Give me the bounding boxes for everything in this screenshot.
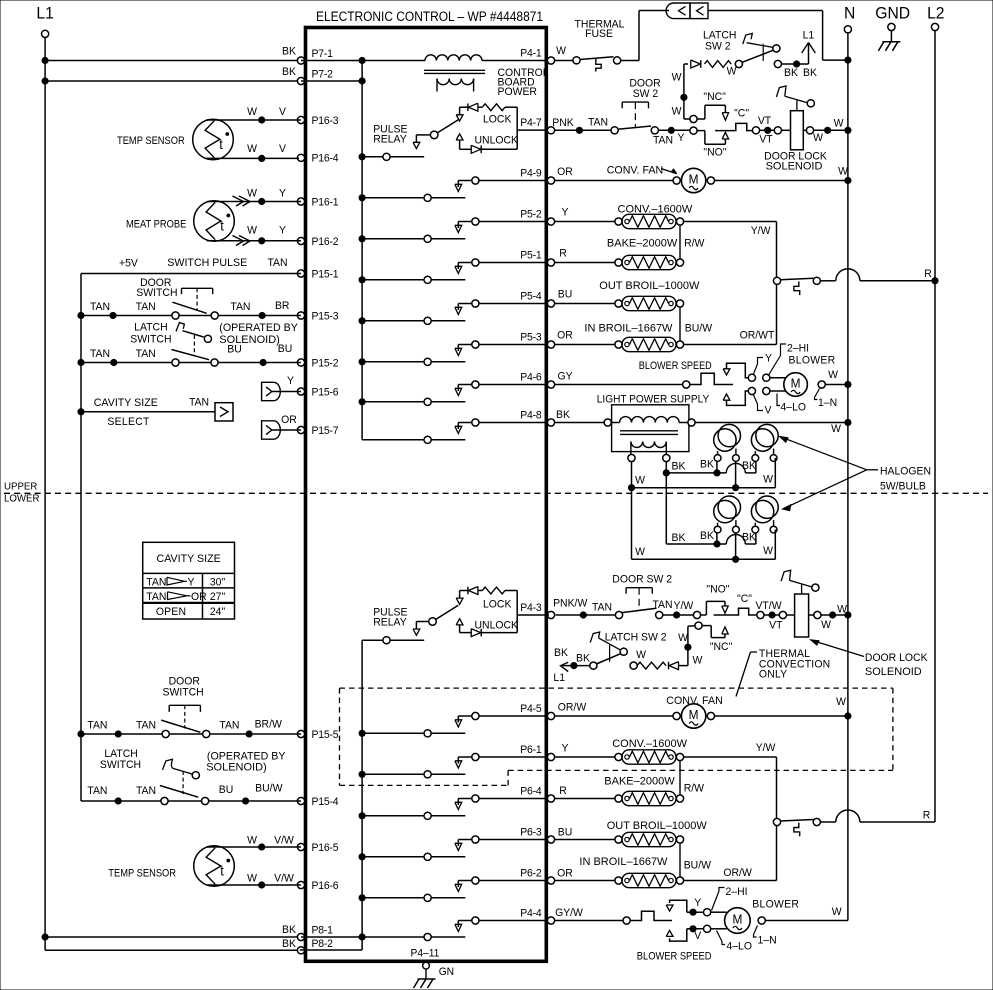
svg-text:P6-2: P6-2 <box>520 867 542 879</box>
svg-text:SOLENOID: SOLENOID <box>865 666 922 678</box>
svg-text:4–LO: 4–LO <box>726 940 752 952</box>
svg-text:BK: BK <box>282 45 297 57</box>
svg-text:Y: Y <box>765 352 772 364</box>
svg-text:P15-1: P15-1 <box>312 268 339 280</box>
svg-text:TAN: TAN <box>90 348 110 360</box>
svg-text:R: R <box>559 785 567 797</box>
svg-text:"NO": "NO" <box>706 583 729 595</box>
svg-text:SWITCH PULSE: SWITCH PULSE <box>167 257 247 269</box>
svg-text:5W/BULB: 5W/BULB <box>880 480 926 492</box>
svg-text:Y: Y <box>562 206 569 218</box>
svg-text:CAVITY SIZE: CAVITY SIZE <box>94 397 158 409</box>
svg-text:L1: L1 <box>553 672 565 684</box>
svg-text:LATCH: LATCH <box>134 321 167 333</box>
svg-text:PNK: PNK <box>552 117 574 129</box>
svg-text:W: W <box>831 423 842 435</box>
svg-text:P15-5: P15-5 <box>312 729 339 741</box>
svg-text:RELAY: RELAY <box>373 133 406 145</box>
svg-text:OUT BROIL–1000W: OUT BROIL–1000W <box>607 820 708 832</box>
svg-text:P4-4: P4-4 <box>520 907 542 919</box>
svg-text:+5V: +5V <box>119 257 139 269</box>
svg-text:BK: BK <box>742 531 757 543</box>
svg-text:(OPERATED BY: (OPERATED BY <box>207 750 286 762</box>
svg-text:V: V <box>279 106 287 118</box>
svg-text:P4-5: P4-5 <box>520 703 542 715</box>
svg-text:OUT BROIL–1000W: OUT BROIL–1000W <box>599 280 700 292</box>
svg-text:DOOR SW 2: DOOR SW 2 <box>612 573 672 585</box>
svg-text:2–HI: 2–HI <box>787 342 809 354</box>
svg-text:2–HI: 2–HI <box>726 886 748 898</box>
svg-text:V/W: V/W <box>274 834 295 846</box>
svg-text:W: W <box>247 106 258 118</box>
svg-text:P8-2: P8-2 <box>312 938 334 950</box>
svg-text:W: W <box>247 143 258 155</box>
svg-text:P15-7: P15-7 <box>312 425 339 437</box>
svg-text:L1: L1 <box>803 29 815 41</box>
svg-text:L2: L2 <box>927 4 944 22</box>
svg-text:TAN: TAN <box>592 601 612 613</box>
svg-text:P15-3: P15-3 <box>312 310 339 322</box>
svg-text:BU/W: BU/W <box>684 859 712 871</box>
svg-text:P16-4: P16-4 <box>312 152 339 164</box>
svg-text:BR: BR <box>275 300 290 312</box>
svg-text:V: V <box>279 143 287 155</box>
svg-text:OR: OR <box>557 166 573 178</box>
svg-text:P6-4: P6-4 <box>520 785 542 797</box>
svg-text:W: W <box>678 632 689 644</box>
svg-text:1–N: 1–N <box>818 397 837 409</box>
svg-text:PNK/W: PNK/W <box>553 597 588 609</box>
svg-text:BK: BK <box>556 409 571 421</box>
svg-text:TAN: TAN <box>652 599 672 611</box>
svg-text:Y: Y <box>279 224 286 236</box>
svg-text:P7-2: P7-2 <box>312 68 334 80</box>
svg-text:24": 24" <box>210 606 226 618</box>
svg-text:BK: BK <box>576 652 591 664</box>
svg-text:W: W <box>692 654 703 666</box>
svg-text:SWITCH: SWITCH <box>100 759 141 771</box>
svg-text:BU: BU <box>558 826 573 838</box>
svg-text:VT/W: VT/W <box>755 600 782 612</box>
svg-text:P4-7: P4-7 <box>520 117 542 129</box>
svg-text:BU: BU <box>219 784 234 796</box>
svg-text:DOOR LOCK: DOOR LOCK <box>865 652 928 664</box>
svg-text:CONV.–1600W: CONV.–1600W <box>612 738 687 750</box>
svg-text:BK: BK <box>700 530 715 542</box>
svg-text:SWITCH: SWITCH <box>163 686 204 698</box>
svg-text:BK: BK <box>742 460 757 472</box>
svg-text:CAVITY SIZE: CAVITY SIZE <box>157 553 221 565</box>
svg-text:W: W <box>821 619 832 631</box>
svg-text:BK: BK <box>803 67 818 79</box>
svg-text:P4-8: P4-8 <box>520 409 542 421</box>
svg-text:TAN: TAN <box>136 301 156 313</box>
svg-text:R: R <box>559 247 567 259</box>
svg-text:(OPERATED BY: (OPERATED BY <box>219 322 298 334</box>
svg-text:W: W <box>247 187 258 199</box>
svg-text:GY: GY <box>557 370 572 382</box>
svg-text:CONV. FAN: CONV. FAN <box>607 164 663 176</box>
svg-text:TAN: TAN <box>136 719 156 731</box>
svg-text:BU/W: BU/W <box>255 782 283 794</box>
svg-text:TAN: TAN <box>87 785 107 797</box>
svg-text:SELECT: SELECT <box>107 416 149 428</box>
svg-text:"C": "C" <box>734 107 749 119</box>
svg-text:27": 27" <box>210 591 226 603</box>
svg-text:ONLY: ONLY <box>759 668 787 680</box>
svg-text:W: W <box>636 649 647 661</box>
svg-text:P5-2: P5-2 <box>520 208 542 220</box>
svg-text:W: W <box>247 224 258 236</box>
svg-text:R/W: R/W <box>684 782 705 794</box>
svg-text:R: R <box>923 809 931 821</box>
svg-text:W: W <box>828 369 839 381</box>
svg-text:CONV.–1600W: CONV.–1600W <box>618 204 693 216</box>
svg-text:SW 2: SW 2 <box>633 88 659 100</box>
svg-text:OR/W: OR/W <box>723 867 752 879</box>
svg-text:LOCK: LOCK <box>483 113 512 125</box>
svg-text:TEMP SENSOR: TEMP SENSOR <box>108 868 176 880</box>
svg-text:P16-1: P16-1 <box>312 196 339 208</box>
svg-text:GN: GN <box>439 966 454 978</box>
svg-text:Y: Y <box>562 742 569 754</box>
svg-text:BAKE–2000W: BAKE–2000W <box>607 238 678 250</box>
svg-text:BU/W: BU/W <box>685 322 713 334</box>
svg-text:Y: Y <box>279 187 286 199</box>
svg-text:VT: VT <box>769 619 783 631</box>
svg-text:M: M <box>732 912 742 926</box>
svg-text:P7-1: P7-1 <box>312 48 334 60</box>
svg-text:GY/W: GY/W <box>555 907 584 919</box>
svg-text:BLOWER: BLOWER <box>789 354 836 366</box>
svg-text:W: W <box>247 834 258 846</box>
svg-text:V: V <box>765 404 773 416</box>
svg-text:P16-6: P16-6 <box>312 880 339 892</box>
svg-text:FUSE: FUSE <box>585 28 613 40</box>
svg-text:"NC": "NC" <box>710 641 733 653</box>
svg-text:SWITCH: SWITCH <box>136 287 177 299</box>
svg-text:GND: GND <box>875 4 910 22</box>
svg-text:1–N: 1–N <box>758 934 777 946</box>
svg-text:P8-1: P8-1 <box>312 924 334 936</box>
svg-text:BK: BK <box>554 647 569 659</box>
svg-text:BLOWER SPEED: BLOWER SPEED <box>639 360 712 372</box>
svg-text:LIGHT POWER SUPPLY: LIGHT POWER SUPPLY <box>597 393 709 405</box>
svg-text:BK: BK <box>672 532 687 544</box>
svg-text:P5-1: P5-1 <box>520 249 542 261</box>
svg-text:t: t <box>220 218 224 233</box>
svg-text:Y: Y <box>188 576 195 588</box>
svg-text:TAN: TAN <box>653 134 673 146</box>
svg-text:W: W <box>763 545 774 557</box>
svg-text:t: t <box>220 863 224 878</box>
svg-text:TEMP SENSOR: TEMP SENSOR <box>117 135 185 147</box>
svg-text:RELAY: RELAY <box>373 616 406 628</box>
svg-text:M: M <box>689 708 699 722</box>
svg-text:M: M <box>791 376 801 390</box>
svg-text:POWER: POWER <box>498 86 538 98</box>
svg-text:SWITCH: SWITCH <box>130 333 171 345</box>
svg-text:P15-4: P15-4 <box>312 796 339 808</box>
svg-text:BK: BK <box>282 66 297 78</box>
svg-text:W: W <box>672 105 683 117</box>
svg-text:P4-6: P4-6 <box>520 371 542 383</box>
svg-text:BK: BK <box>672 460 687 472</box>
svg-text:W: W <box>672 71 683 83</box>
svg-text:W: W <box>832 906 843 918</box>
svg-text:TAN: TAN <box>189 396 209 408</box>
svg-text:"NC": "NC" <box>703 91 726 103</box>
svg-text:"C": "C" <box>737 593 752 605</box>
svg-text:R/W: R/W <box>684 237 705 249</box>
svg-text:VT: VT <box>759 133 773 145</box>
svg-text:BU: BU <box>558 288 573 300</box>
svg-text:TAN: TAN <box>136 785 156 797</box>
svg-text:W: W <box>838 165 849 177</box>
svg-text:TAN: TAN <box>267 257 287 269</box>
svg-text:BK: BK <box>282 924 297 936</box>
svg-text:LOWER: LOWER <box>4 493 40 504</box>
svg-text:P15-6: P15-6 <box>312 386 339 398</box>
svg-text:P4-9: P4-9 <box>520 167 542 179</box>
svg-text:OPEN: OPEN <box>156 606 186 618</box>
svg-text:Y/W: Y/W <box>756 742 777 754</box>
svg-text:Y: Y <box>287 375 294 387</box>
svg-text:Y/W: Y/W <box>751 225 772 237</box>
svg-text:TAN: TAN <box>146 591 166 603</box>
svg-text:BK: BK <box>784 67 799 79</box>
svg-text:OR: OR <box>557 867 573 879</box>
svg-text:IN BROIL–1667W: IN BROIL–1667W <box>584 323 673 335</box>
svg-text:P6-3: P6-3 <box>520 826 542 838</box>
svg-text:M: M <box>689 172 699 186</box>
svg-text:Y/W: Y/W <box>674 600 695 612</box>
svg-text:ELECTRONIC CONTROL – WP #44488: ELECTRONIC CONTROL – WP #4448871 <box>316 9 543 25</box>
svg-text:VT: VT <box>758 115 772 127</box>
svg-text:P5-4: P5-4 <box>520 290 542 302</box>
svg-text:BLOWER SPEED: BLOWER SPEED <box>637 951 712 963</box>
svg-text:P4–11: P4–11 <box>411 947 440 959</box>
svg-text:W: W <box>837 603 848 615</box>
svg-text:TAN: TAN <box>230 301 250 313</box>
svg-text:P6-1: P6-1 <box>520 744 542 756</box>
svg-text:SOLENOID): SOLENOID) <box>206 762 267 774</box>
svg-text:BK: BK <box>700 458 715 470</box>
svg-text:W: W <box>635 546 646 558</box>
svg-text:P5-3: P5-3 <box>520 331 542 343</box>
svg-text:TAN: TAN <box>136 348 156 360</box>
svg-text:t: t <box>219 137 223 152</box>
svg-text:V/W: V/W <box>274 872 295 884</box>
svg-text:Y: Y <box>694 897 701 909</box>
svg-text:TAN: TAN <box>87 719 107 731</box>
svg-text:IN BROIL–1667W: IN BROIL–1667W <box>579 856 668 868</box>
svg-text:LOCK: LOCK <box>483 598 512 610</box>
svg-text:BLOWER: BLOWER <box>752 898 799 910</box>
svg-text:L1: L1 <box>36 4 53 22</box>
svg-text:V: V <box>694 930 702 942</box>
svg-text:W: W <box>813 132 824 144</box>
svg-text:OR/W: OR/W <box>558 701 587 713</box>
svg-text:BR/W: BR/W <box>255 718 283 730</box>
svg-text:P15-2: P15-2 <box>312 357 339 369</box>
svg-text:UNLOCK: UNLOCK <box>475 134 519 146</box>
svg-text:OR: OR <box>281 414 297 426</box>
svg-text:SOLENOID: SOLENOID <box>766 161 823 173</box>
svg-text:W: W <box>635 474 646 486</box>
svg-text:N: N <box>844 4 855 22</box>
svg-text:TAN: TAN <box>588 116 608 128</box>
svg-text:BK: BK <box>282 938 297 950</box>
svg-text:P16-3: P16-3 <box>312 115 339 127</box>
svg-text:OR/WT: OR/WT <box>740 329 775 341</box>
svg-text:OR: OR <box>191 591 207 603</box>
svg-text:BU: BU <box>278 343 293 355</box>
svg-text:"NO": "NO" <box>703 146 726 158</box>
svg-text:SW 2: SW 2 <box>705 40 731 52</box>
svg-text:R: R <box>924 268 932 280</box>
svg-text:W: W <box>834 117 845 129</box>
svg-text:OR: OR <box>557 329 573 341</box>
svg-text:HALOGEN: HALOGEN <box>880 465 931 477</box>
svg-text:P4-1: P4-1 <box>520 47 542 59</box>
svg-text:UPPER: UPPER <box>4 481 37 492</box>
svg-text:BAKE–2000W: BAKE–2000W <box>604 776 675 788</box>
svg-text:P16-2: P16-2 <box>312 236 339 248</box>
svg-text:P4-3: P4-3 <box>520 602 542 614</box>
svg-text:W: W <box>247 872 258 884</box>
svg-text:TAN: TAN <box>90 301 110 313</box>
svg-text:W: W <box>556 45 567 57</box>
svg-text:30": 30" <box>210 576 226 588</box>
svg-text:W: W <box>727 65 738 77</box>
svg-text:W: W <box>763 473 774 485</box>
svg-text:Y: Y <box>678 132 685 144</box>
svg-text:MEAT PROBE: MEAT PROBE <box>126 219 187 231</box>
svg-text:LATCH SW 2: LATCH SW 2 <box>605 631 667 643</box>
svg-text:W: W <box>836 696 847 708</box>
svg-text:TAN: TAN <box>146 576 166 588</box>
svg-text:P16-5: P16-5 <box>312 842 339 854</box>
svg-text:BU: BU <box>227 343 242 355</box>
svg-text:TAN: TAN <box>219 719 239 731</box>
svg-text:UNLOCK: UNLOCK <box>475 619 519 631</box>
svg-text:4–LO: 4–LO <box>781 401 807 413</box>
